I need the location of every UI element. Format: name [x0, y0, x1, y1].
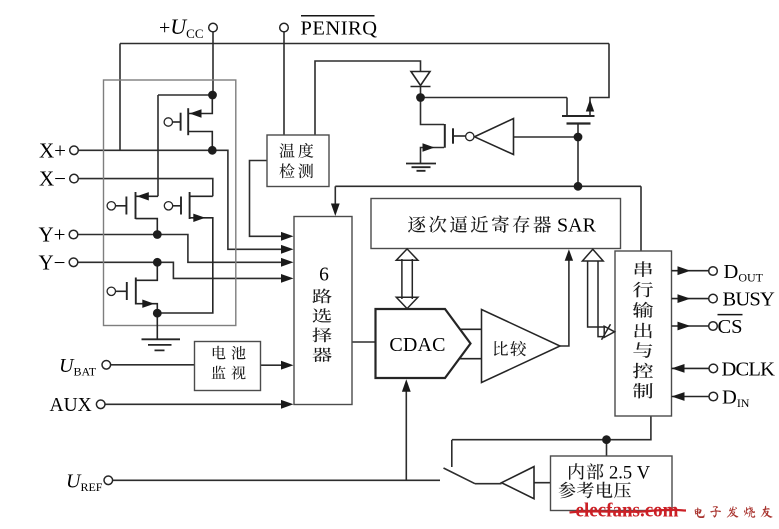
arrow Q4 source: [142, 300, 154, 308]
transistor Q6: [562, 116, 595, 124]
label Ubat: [59, 355, 97, 379]
wire switch blade S1: [444, 468, 476, 484]
arrow temp channel into mux: [281, 232, 294, 241]
arrow BUSY out: [678, 294, 691, 303]
transistor Q4: [107, 278, 136, 305]
wire Uref net: [113, 479, 441, 481]
svg-text:2.5 V: 2.5 V: [609, 463, 651, 483]
wire +Ucc terminal drop: [212, 32, 214, 95]
node Dout terminal: [709, 267, 718, 276]
wire diode cathode to node A: [421, 87, 568, 117]
switch-matrix enclosure: [104, 80, 236, 326]
node ref rail node junction: [602, 435, 611, 444]
arrow comparator to SAR: [565, 249, 573, 261]
label mux text: [312, 265, 331, 362]
node +Ucc terminal: [209, 23, 218, 32]
arrow Q3 source: [193, 214, 205, 222]
label internal reference text: [559, 463, 651, 498]
comparator U3: [460, 310, 560, 383]
svg-text:AUX: AUX: [50, 395, 92, 416]
node BUSY terminal: [709, 294, 718, 303]
wire temp-detect to diode D1: [315, 61, 421, 136]
wire Q6 drain to +Ucc rail: [590, 44, 609, 117]
label battery-monitor text: [212, 346, 246, 380]
wire AUX net: [105, 403, 284, 405]
wire Ubat to battery-monitor: [111, 364, 195, 366]
wire +Ucc top rail: [120, 43, 609, 45]
svg-text:6: 6: [319, 265, 329, 286]
wire serial-control bottom to reference box: [452, 416, 651, 456]
node Ubat terminal: [102, 361, 111, 370]
transistor Q1: [164, 108, 188, 135]
svg-text:DCLK: DCLK: [722, 358, 776, 380]
label comparator text: [494, 341, 526, 356]
transistor Q5: [445, 124, 466, 148]
SAR register block: [371, 199, 621, 249]
label temp-detect text: [280, 143, 314, 178]
label Uref: [66, 470, 103, 494]
arrow Uref into CDAC: [402, 379, 411, 392]
node diode node A junction: [416, 93, 425, 102]
wire Q6 gate drop: [577, 124, 579, 137]
svg-text:X−: X−: [39, 167, 66, 191]
transistor Q2: [107, 192, 135, 219]
op-amp U2 (reference buffer): [502, 467, 535, 499]
wire serial-control DCLK lead: [672, 367, 709, 369]
wire serial-control BUSY lead: [672, 298, 709, 300]
node AUX terminal: [96, 400, 105, 409]
node Y+/Q2 junction: [153, 230, 162, 239]
wire node B down to mid rail: [577, 137, 579, 186]
label Din: [722, 387, 750, 411]
arrow AUX into mux: [281, 400, 294, 409]
node PENIRQ terminal: [280, 23, 289, 32]
ground GND2 (PENIRQ transistor): [406, 164, 436, 171]
label PENIRQ: [301, 16, 378, 40]
wire X+ net: [78, 150, 284, 249]
arrow Y- into mux: [281, 274, 294, 283]
node gnd node junction: [153, 309, 162, 318]
svg-text:Y+: Y+: [39, 223, 66, 247]
label CS (active low): [718, 315, 743, 338]
arrow Dout out: [678, 266, 691, 275]
bus-width slash: [602, 324, 611, 340]
wire serial-control CS lead: [672, 325, 709, 327]
arrow Q6 drain: [586, 100, 594, 112]
watermark chinese: [695, 506, 773, 518]
CDAC block U4: [376, 309, 471, 378]
wire battery-monitor to mux: [261, 364, 284, 366]
label Dout: [724, 261, 764, 285]
wire node A to Q5 drain: [421, 98, 445, 125]
arrow Din in: [672, 392, 685, 401]
arrow CS out: [678, 322, 691, 331]
arrow control rail into mux top: [331, 204, 340, 217]
svg-text:X+: X+: [39, 138, 66, 162]
node Uref terminal: [104, 476, 113, 485]
node +Ucc/Q1 junction: [208, 91, 217, 100]
wire PENIRQ drop to temp-detect: [283, 32, 285, 136]
node DCLK terminal: [709, 364, 718, 373]
wire buffer U2 input wire: [475, 483, 502, 485]
wire SAR-serial bus (bent double line): [588, 262, 606, 337]
wire Q1/Q2 drain rail to +Ucc node: [158, 95, 213, 196]
svg-text:SAR: SAR: [557, 214, 597, 236]
arrow bus into serial-control: [604, 326, 614, 337]
mux 6-channel selector block: [294, 217, 352, 405]
node node B junction: [574, 133, 583, 142]
wire Y- net: [78, 262, 285, 278]
battery-monitor block: [195, 342, 261, 391]
svg-text:CDAC: CDAC: [389, 334, 445, 356]
transistor Q3: [164, 192, 189, 219]
wire serial-control Dout lead: [672, 270, 709, 272]
wire X- net: [78, 179, 213, 197]
svg-text:CS: CS: [718, 316, 743, 338]
svg-text:PENIRQ: PENIRQ: [301, 18, 378, 40]
temp-detect block: [267, 135, 329, 187]
wire rail-to-X+ branch: [119, 44, 121, 151]
label serial-control text: [633, 261, 653, 398]
wire SAR-CDAC data bus (double arrow): [402, 259, 412, 299]
wire buffer U2 output: [534, 482, 551, 484]
arrow X+ into mux: [281, 245, 294, 254]
diode D1: [411, 72, 431, 87]
node mid rail node junction: [574, 182, 583, 191]
svg-text:Y−: Y−: [39, 250, 66, 274]
label +Ucc: [159, 14, 204, 41]
wire mid rail into serial-control top: [640, 186, 642, 251]
node Y+ terminal: [69, 230, 78, 239]
wire Uref to CDAC reference input: [405, 390, 407, 480]
svg-text:BUSY: BUSY: [723, 289, 775, 311]
wire comparator output to SAR: [560, 260, 569, 346]
node CS terminal: [709, 322, 718, 331]
arrow Q1 drain: [190, 109, 202, 117]
internal 2.5V reference block: [551, 456, 673, 511]
watermark elecfans.com: [570, 500, 687, 522]
arrow Y+ into mux: [281, 258, 294, 267]
arrow Q5 source: [423, 143, 435, 151]
wire Q5 source to ground: [421, 148, 445, 164]
serial-control block: [615, 251, 672, 416]
node X- terminal: [70, 174, 79, 183]
node Y- terminal: [69, 258, 78, 267]
wire temp-detect output to mux: [250, 161, 285, 237]
wire mux to CDAC analog input: [352, 341, 376, 343]
node X+ terminal: [70, 146, 79, 155]
arrow Q2 drain: [137, 192, 149, 200]
wire mid control rail: [335, 185, 641, 187]
node Din terminal: [709, 392, 718, 401]
op-amp U1 (inverter): [466, 119, 514, 155]
node X+/Q1 junction: [208, 146, 217, 155]
arrow battery-monitor into mux: [281, 361, 294, 370]
wire switch to internal reference rail: [451, 440, 453, 467]
label SAR text: [408, 214, 597, 236]
wire inverter U1 input to node B: [514, 136, 579, 138]
wire serial-control Din lead: [672, 396, 709, 398]
ground GND1 (switch matrix): [142, 339, 181, 350]
wire Y+ net: [78, 235, 285, 263]
wire mid rail into mux top: [334, 186, 336, 206]
node Y-/Q4 junction: [153, 258, 162, 267]
arrow DCLK in: [672, 364, 685, 373]
